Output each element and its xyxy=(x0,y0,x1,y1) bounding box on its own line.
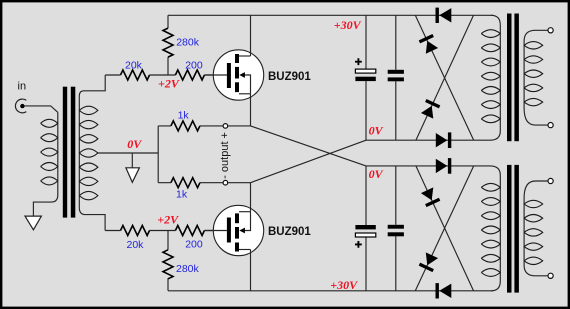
svg-text:0V: 0V xyxy=(127,137,142,151)
svg-text:- output +: - output + xyxy=(219,132,231,179)
svg-text:20k: 20k xyxy=(125,59,143,71)
svg-text:in: in xyxy=(18,81,27,93)
svg-text:+30V: +30V xyxy=(334,18,362,32)
svg-text:0V: 0V xyxy=(369,167,384,181)
svg-text:280k: 280k xyxy=(176,263,200,275)
svg-text:200: 200 xyxy=(185,239,203,251)
svg-text:20k: 20k xyxy=(127,239,145,251)
svg-text:+2V: +2V xyxy=(157,212,179,226)
svg-text:200: 200 xyxy=(185,59,203,71)
svg-text:BUZ901: BUZ901 xyxy=(268,226,311,238)
svg-text:0V: 0V xyxy=(369,124,384,138)
svg-text:+2V: +2V xyxy=(158,77,180,91)
svg-text:280k: 280k xyxy=(176,37,200,49)
svg-text:+30V: +30V xyxy=(330,278,358,292)
svg-text:1k: 1k xyxy=(178,109,190,121)
svg-text:1k: 1k xyxy=(176,189,188,201)
svg-text:BUZ901: BUZ901 xyxy=(268,71,311,83)
